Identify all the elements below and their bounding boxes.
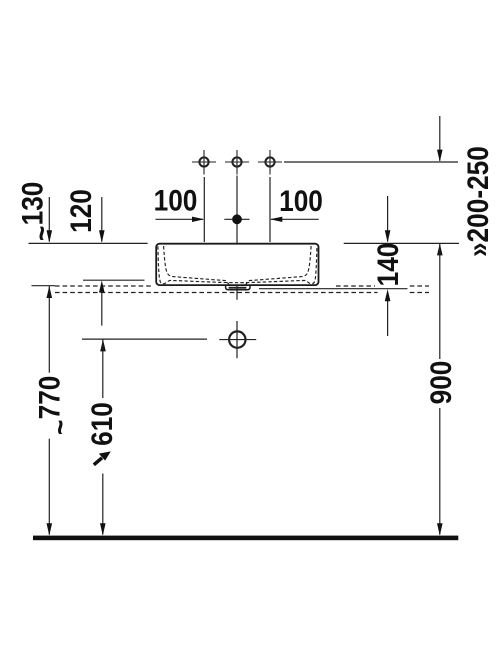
dim 120 top arrowhead [99,230,105,242]
extension line at rim level right [344,242,459,244]
dim 900 down arrowhead [437,523,443,535]
center dot node [232,214,242,224]
dim ~770 down arrowhead at floor [47,523,53,535]
dim 610 vertical lower [102,474,104,535]
dim 140 bottom arrowhead [385,289,391,301]
height adjust arrow glyph [94,451,111,464]
dim 610 down arrowhead [100,523,106,535]
floor line [33,536,458,541]
extension line below left hole [203,177,205,242]
faucet level line to right [284,161,458,163]
svg-text:~: ~ [44,420,77,435]
dim 900 up arrowhead [437,243,443,255]
svg-text:900: 900 [424,361,457,405]
upper dashed worktop line right part [410,285,429,287]
dim 900 vertical lower [439,408,441,535]
washbasin body outline [156,244,318,285]
dim 610 top line [82,338,207,340]
svg-text:120: 120 [64,189,97,233]
svg-text:100: 100 [154,184,198,217]
centerline below center hole [236,176,238,300]
basin bowl dashed lower contour [158,246,317,284]
svg-text:770: 770 [33,376,66,420]
extension line below right hole [269,177,271,242]
lower dashed worktop line right part [410,292,429,294]
dim 140 top extension [387,196,389,242]
dim 140 top arrowhead [385,230,391,242]
solid line under 140 [259,288,408,290]
centerline to drain circle [236,321,238,358]
dim ~770 vertical line lower part [48,439,50,535]
basin bowl dashed upper-right contour [245,246,311,285]
solid line under 120 [83,279,145,281]
basin bowl dashed upper-left contour [164,246,230,285]
dim ~770 up arrowhead [47,286,53,298]
extension line at rim level left [29,242,148,244]
drain inner bar [229,287,247,289]
dim ~130 top arrowhead [47,230,53,242]
dim 610 vertical upper [102,340,104,399]
upper dashed worktop line [55,285,152,287]
drain flange [226,285,250,289]
dim 120 bottom tail [101,292,103,326]
svg-text:100: 100 [279,184,323,217]
svg-text:140: 140 [371,243,404,287]
solid line under ~130 [32,285,56,287]
svg-text:»200-250: »200-250 [462,146,495,257]
svg-text:610: 610 [85,402,118,446]
lower dashed worktop line [55,292,378,294]
faucet hole circle center [225,150,249,175]
faucet hole circle right [258,150,282,175]
dim 120 top extension [101,197,103,242]
upper dashed worktop line mid part [336,285,375,287]
drain connection circle [219,331,256,347]
svg-text:~: ~ [25,226,58,241]
dim 610 up arrowhead [100,339,106,351]
dim 120 bottom arrowhead [99,280,105,292]
arrowhead left toward right hole line [270,217,282,222]
dim ~770 shared vertical line upper part [48,286,50,373]
dim 200-250 top extension [439,116,441,161]
dimension line 100/100 at y219 [156,218,319,220]
svg-text:130: 130 [16,182,49,226]
arrowhead right toward left hole line [192,217,204,222]
dim ~130 top extension [48,197,50,242]
faucet hole circle left [192,150,216,175]
dim 200-250 down arrowhead [437,150,443,162]
dim 140 bottom tail [387,301,389,337]
dim 900 vertical upper [439,244,441,360]
